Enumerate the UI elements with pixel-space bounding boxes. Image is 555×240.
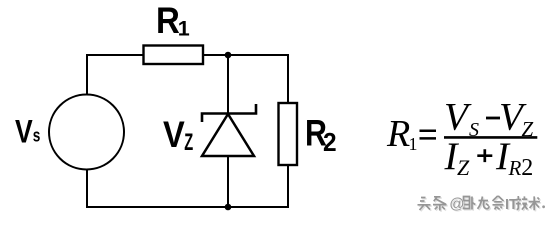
formula fraction bar (444, 136, 537, 139)
svg-text:@: @ (449, 196, 464, 213)
svg-text:R: R (156, 0, 180, 41)
watermark toutiao (418, 196, 545, 212)
formula R1 = (VS - VZ)/(IZ + IR2) (386, 96, 534, 182)
zener diode VZ cathode bar (202, 104, 256, 122)
wire zener branch upper (227, 55, 229, 115)
wire right vertical lower (287, 165, 289, 208)
voltage source VS (49, 95, 124, 170)
formula plus sign (477, 149, 492, 162)
watermark trailing dot (542, 205, 545, 208)
svg-text:V: V (15, 114, 33, 150)
svg-text:2: 2 (323, 128, 337, 157)
svg-text:2: 2 (521, 155, 533, 181)
resistor R1 (144, 46, 204, 65)
wire top-left horizontal (86, 54, 144, 56)
svg-text:IT: IT (505, 197, 518, 213)
label VZ (163, 114, 193, 156)
formula equals sign (420, 131, 437, 139)
wire right vertical upper (287, 54, 289, 103)
wire left vertical upper (86, 54, 88, 94)
svg-text:Z: Z (457, 155, 470, 180)
svg-text:R: R (386, 113, 410, 155)
svg-text:Z: Z (184, 129, 193, 156)
label R2 (305, 112, 337, 157)
wire bottom horizontal (86, 206, 289, 208)
formula minus sign (486, 117, 500, 120)
svg-text:1: 1 (409, 134, 418, 154)
node junction dot bottom (225, 204, 232, 211)
svg-text:V: V (444, 96, 472, 139)
wire top-right horizontal (203, 54, 289, 56)
wire zener branch lower (227, 156, 229, 207)
svg-text:R: R (508, 156, 522, 180)
node junction dot top (225, 52, 232, 59)
svg-text:s: s (33, 125, 41, 145)
svg-text:V: V (163, 114, 185, 156)
svg-text:1: 1 (178, 17, 190, 41)
zener diode VZ triangle (202, 114, 254, 156)
label Vs (15, 114, 40, 150)
resistor R2 (279, 103, 298, 165)
label R1 (156, 0, 190, 41)
wire left vertical lower (86, 170, 88, 208)
